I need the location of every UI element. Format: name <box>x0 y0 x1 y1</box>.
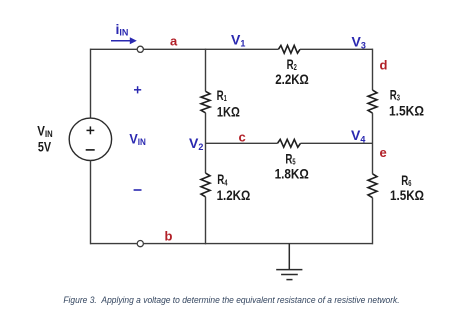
node terminal bottom (open circle) <box>137 241 143 247</box>
current arrow iIN <box>111 37 137 44</box>
svg-text:1.5KΩ: 1.5KΩ <box>389 103 424 119</box>
wire middle column upper <box>205 49 207 92</box>
svg-text:1KΩ: 1KΩ <box>217 104 240 119</box>
resistor R4 <box>201 173 210 197</box>
voltage source VIN <box>69 118 111 160</box>
wire left column lower <box>90 160 92 244</box>
wire left column upper <box>90 49 92 119</box>
wire top middle segment <box>144 48 279 50</box>
wire top right segment <box>300 48 373 50</box>
svg-text:5V: 5V <box>38 139 52 154</box>
label VIN 5V source <box>37 124 52 155</box>
svg-text:1.8KΩ: 1.8KΩ <box>275 167 309 182</box>
resistor R1 <box>201 91 210 113</box>
wire top left segment <box>91 48 137 50</box>
resistor R2 <box>278 45 300 53</box>
wire middle row right segment <box>301 142 373 144</box>
wire middle row left segment <box>206 142 278 144</box>
polarity minus blue <box>134 189 142 191</box>
resistor R6 <box>368 174 377 198</box>
svg-text:Figure 3. Applying a voltage: Figure 3. Applying a voltage to determin… <box>63 295 399 306</box>
wire middle column centre <box>205 113 207 173</box>
svg-text:d: d <box>380 58 388 73</box>
svg-text:1.2KΩ: 1.2KΩ <box>217 188 251 203</box>
wire right column upper <box>372 49 374 91</box>
wire middle column lower <box>205 197 207 245</box>
ground <box>276 244 302 280</box>
voltage source plus sign <box>87 126 95 134</box>
svg-text:e: e <box>380 145 387 160</box>
voltage source minus sign <box>86 149 95 151</box>
svg-text:b: b <box>165 229 173 244</box>
polarity plus blue <box>134 86 141 93</box>
svg-text:a: a <box>170 34 178 49</box>
resistor R5 <box>278 139 301 147</box>
svg-text:2.2KΩ: 2.2KΩ <box>275 72 309 87</box>
resistor R3 <box>368 90 377 113</box>
wire right column lower <box>372 198 374 245</box>
wire bottom left segment <box>91 243 137 245</box>
svg-text:1.5KΩ: 1.5KΩ <box>390 188 424 203</box>
wire right column centre <box>372 113 374 174</box>
wire bottom right segment <box>144 243 373 245</box>
svg-text:c: c <box>239 130 246 145</box>
node terminal top (open circle) <box>137 46 143 52</box>
